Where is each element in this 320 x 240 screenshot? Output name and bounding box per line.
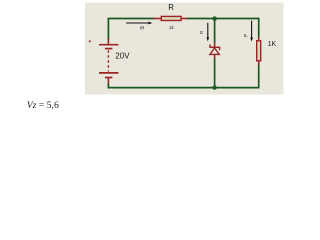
resistor R pin stub right xyxy=(182,18,188,20)
load resistor body xyxy=(257,41,261,61)
zener cathode bar right tab xyxy=(219,47,221,50)
battery BAT1 pin stub top xyxy=(107,39,109,44)
battery plus marker xyxy=(89,40,91,42)
zener diode cathode bar xyxy=(209,46,220,48)
svg-text:20V: 20V xyxy=(115,51,130,60)
wire: zener branch lower xyxy=(214,58,216,87)
battery plate short lower xyxy=(105,77,113,79)
svg-text:1K: 1K xyxy=(268,41,277,48)
svg-text:1k: 1k xyxy=(169,25,175,30)
load resistor pin stub bottom xyxy=(258,61,260,65)
junction node top (zener tap) xyxy=(212,16,216,20)
svg-text:IL: IL xyxy=(244,33,248,38)
wire: right vertical lower segment xyxy=(258,65,260,88)
wire: top from R to top-right corner xyxy=(187,18,259,20)
wire: top-left corner from battery up and right to R xyxy=(108,19,153,40)
current arrow IL xyxy=(250,21,253,42)
wire: right vertical upper segment xyxy=(258,18,260,38)
svg-text:R: R xyxy=(168,3,174,12)
schematic panel background xyxy=(85,3,284,95)
battery plate long upper xyxy=(99,44,118,46)
battery dashed cell-omission line xyxy=(107,50,109,71)
svg-text:IR: IR xyxy=(140,26,145,31)
current arrow IR xyxy=(126,22,152,25)
current arrow Iz xyxy=(206,23,209,42)
zener cathode bar left tab xyxy=(209,44,211,47)
junction node bottom (zener tap) xyxy=(212,85,216,89)
wire: zener branch upper xyxy=(214,19,216,43)
resistor R body xyxy=(161,16,181,20)
battery plate short upper xyxy=(105,48,113,50)
zener anode triangle xyxy=(210,48,219,54)
svg-text:Vz = 5,6: Vz = 5,6 xyxy=(27,100,59,111)
battery plate long lower xyxy=(99,72,118,74)
battery pin stub bottom xyxy=(107,78,109,84)
zener diode pin stub bottom xyxy=(214,54,216,58)
resistor R pin stub left xyxy=(153,18,161,20)
zener diode D1 pin stub top xyxy=(214,42,216,46)
wire: bottom rail xyxy=(108,87,260,89)
load resistor pin stub top xyxy=(258,37,260,40)
wire: battery bottom to bottom rail xyxy=(107,83,109,88)
